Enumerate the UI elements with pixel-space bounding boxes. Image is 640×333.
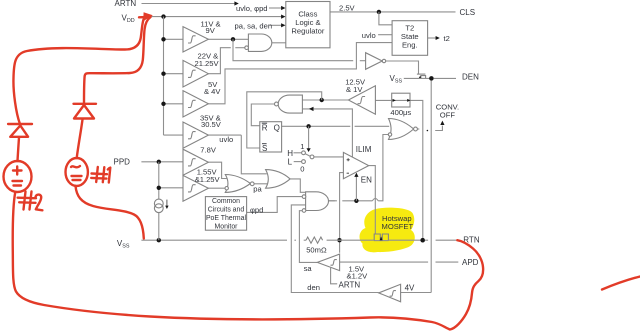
- svg-text:400μs: 400μs: [390, 108, 411, 117]
- switch L contact: [302, 160, 306, 164]
- wire big OR output to AND top input: [290, 179, 306, 192]
- wire rail stub to resistor: [304, 239, 306, 241]
- svg-text:ARTN: ARTN: [115, 0, 137, 8]
- node 2.5V junction: [377, 10, 381, 14]
- svg-text:& 4V: & 4V: [204, 87, 221, 96]
- node VSS rail bus junction: [157, 238, 161, 242]
- wire DEN pin line: [434, 77, 456, 79]
- wire switch common to ILIM plus input: [314, 156, 343, 158]
- red arrowhead at VDD: [143, 12, 153, 21]
- wire den loop bottom from DEN vertical to 4V comp: [401, 292, 432, 294]
- wire comp5 output to small NOR input: [208, 162, 227, 178]
- svg-text:sa: sa: [304, 264, 313, 273]
- svg-text:MOSFET: MOSFET: [382, 222, 414, 231]
- gate NAND C left-pointing (latch reset): [278, 95, 302, 113]
- node tiny stub dot: [427, 130, 429, 132]
- node bus junction comp1: [161, 37, 165, 41]
- wire 400us box to drain sense vertical: [410, 100, 423, 238]
- wire NAND A output to Class box: [272, 42, 286, 44]
- comparator 11V & 9V: [183, 27, 208, 52]
- svg-text:OFF: OFF: [440, 111, 456, 120]
- svg-text:R: R: [262, 123, 268, 132]
- red wire source1 to diode1: [77, 120, 83, 159]
- red diode D1: [74, 104, 97, 119]
- svg-text:30.5V: 30.5V: [201, 120, 222, 129]
- red bar under arrow: [139, 16, 148, 19]
- switch H contact: [302, 151, 306, 155]
- wire lower bus PPD: [141, 161, 183, 163]
- svg-text:&1.2V: &1.2V: [347, 272, 369, 281]
- node EN junction: [354, 199, 358, 203]
- node Q junction: [306, 124, 310, 128]
- svg-text:Circuits and: Circuits and: [208, 207, 245, 214]
- svg-text:Monitor: Monitor: [215, 224, 239, 231]
- wire 12.5V comp output to latch area: [302, 99, 348, 101]
- arrowhead VDD into Class: [281, 15, 285, 19]
- wire pa sa den arrow into Class box: [270, 24, 282, 26]
- red diode D2: [8, 124, 32, 137]
- box U2 T2 State Eng: [392, 21, 428, 56]
- red label #2: [18, 192, 43, 211]
- svg-text:1: 1: [300, 142, 304, 151]
- svg-text:ILIM: ILIM: [356, 145, 372, 154]
- wire NOR output stub: [417, 128, 419, 130]
- node drain RTN junction: [420, 238, 425, 243]
- arrowhead into NAND C lower input: [309, 107, 314, 111]
- wire bus to comparator 6: [159, 187, 183, 189]
- wire NAND C output bubble to R input: [251, 104, 274, 126]
- comparator den 4V left-pointing: [379, 284, 401, 302]
- bubble pa NOR output: [250, 182, 254, 186]
- red loop source2 to bottom to RTN: [13, 192, 483, 330]
- red source #1 circle: [66, 158, 88, 186]
- wire uvlo phi-pd arrow into Class box: [269, 7, 281, 9]
- wire L stub: [294, 161, 302, 163]
- gate NOR dump-timer: [389, 119, 414, 140]
- wire EN arrow line: [355, 176, 357, 201]
- wire comp1 output to NAND A input: [208, 38, 248, 40]
- svg-text:PoE Thermal: PoE Thermal: [206, 215, 247, 222]
- svg-text:PPD: PPD: [114, 158, 131, 167]
- svg-text:EN: EN: [361, 176, 372, 185]
- wire DEN vertical down right side: [430, 81, 432, 293]
- svg-text:pa: pa: [253, 185, 262, 194]
- wire EN line to NOR lower input: [378, 135, 388, 201]
- red wire diode1 up to VDD arrow: [84, 17, 151, 103]
- comparator sa 1.5V & 1.2V left-pointing: [317, 254, 339, 271]
- wire bus to comparator 1: [164, 38, 184, 40]
- wire sa comp output to AND sa bubble: [299, 211, 317, 263]
- arrowhead EN into ILIM: [354, 173, 358, 177]
- red wire diode2 up to VDD arrow: [13, 16, 148, 124]
- gate NAND A (uvlo gating): [248, 34, 271, 51]
- svg-text:APD: APD: [462, 258, 479, 267]
- node DEN junction: [429, 76, 434, 81]
- wire resistor to sense junction: [327, 239, 374, 241]
- wire EN line hop bump over gate vertical: [372, 199, 378, 201]
- resistor 50mohm: [306, 237, 323, 243]
- svg-text:uvlo: uvlo: [362, 31, 376, 40]
- wire sa comp ref to ARTN label: [331, 268, 338, 284]
- wire comp6 output to small NOR bubble: [208, 187, 224, 189]
- svg-text:7.8V: 7.8V: [200, 146, 217, 155]
- arrowhead pa sa den into Class: [281, 23, 285, 27]
- wire bus to comparator 3: [164, 103, 184, 105]
- wire NAND C lower input from ILIM top tap: [302, 109, 352, 158]
- inverter U4: [366, 53, 383, 70]
- red wire source1 down to VSS rail: [76, 186, 144, 239]
- wire inside 400us box: [392, 99, 410, 101]
- wire hotswap mosfet channel baseline: [374, 240, 389, 242]
- arrowhead ARTN top: [234, 1, 238, 5]
- transistor DEN mosfet: [417, 73, 426, 75]
- wire uvlo down to big OR input: [241, 135, 266, 174]
- bubble NOR output: [414, 127, 418, 131]
- wire ARTN top arrow line: [142, 3, 236, 5]
- svg-text:0: 0: [300, 164, 304, 173]
- svg-text:S: S: [262, 144, 267, 153]
- wire VSS stub to DEN mosfet source: [404, 77, 429, 79]
- bubble NAND C output: [275, 102, 279, 106]
- svg-text:4V: 4V: [405, 283, 415, 292]
- red source #2 circle: [4, 161, 32, 192]
- arrowhead uvlo phi-pd into Class: [281, 6, 285, 10]
- node sense resistor junction: [337, 238, 341, 242]
- ILIM plus sign: [347, 158, 350, 161]
- wire AND output stub: [329, 200, 335, 202]
- wire Q output to NOR input: [282, 125, 351, 127]
- wire H stub: [294, 152, 302, 154]
- box 400us timer: [392, 93, 410, 107]
- box U3 Common Circuits and PoE Thermal Monitor: [205, 197, 246, 231]
- wire comp4 uvlo output: [208, 134, 241, 136]
- wire ILIM minus input to sense node: [340, 173, 344, 253]
- bubble NOR lower input: [388, 133, 391, 136]
- svg-text:φpd: φpd: [250, 205, 263, 214]
- svg-text:2.5V: 2.5V: [339, 4, 356, 13]
- svg-text:Eng.: Eng.: [402, 40, 418, 49]
- svg-text:& 1V: & 1V: [346, 85, 363, 94]
- comparator ILIM: [343, 152, 368, 178]
- svg-text:CLS: CLS: [460, 8, 476, 17]
- svg-text:Q: Q: [274, 123, 280, 132]
- wire bus end into comparator 4: [164, 134, 184, 136]
- node bus junction comp2: [161, 72, 165, 76]
- wire 2.5V line from Class box to CLS: [330, 11, 456, 13]
- arrowhead Q select down: [307, 148, 311, 152]
- wire rail dash between hops: [294, 239, 296, 241]
- comparator 1.55V & 1.25V: [183, 175, 208, 201]
- comparator 35V & 30.5V: [183, 122, 208, 148]
- node VDD bus junction: [161, 14, 165, 18]
- node 12.5V comp output junction: [320, 98, 324, 102]
- arrow tick at 400us box right: [407, 99, 410, 102]
- arrowhead CONV OFF up: [440, 121, 444, 125]
- comparator 5V & 4V: [183, 91, 208, 117]
- svg-text:DEN: DEN: [462, 72, 479, 81]
- red stray segment bottom right: [602, 277, 640, 290]
- svg-text:t2: t2: [444, 34, 450, 43]
- wire RTN line pieces with hop: [425, 239, 428, 241]
- wire junction down to inverter feed: [233, 39, 353, 60]
- wire lower bus vertical upper: [158, 162, 160, 199]
- red wire source2 to diode2: [18, 138, 20, 162]
- wire t2 output arrow line: [428, 37, 437, 39]
- bubble AND phi-pd input: [302, 195, 306, 199]
- wire comp2 output up to NAND B bubble: [208, 48, 230, 74]
- svg-text:pa, sa, den: pa, sa, den: [235, 21, 273, 30]
- svg-text:Common: Common: [212, 198, 240, 205]
- wire bus to comparator 2: [164, 73, 184, 75]
- svg-text:50mΩ: 50mΩ: [306, 245, 327, 254]
- transistor Q1 hotswap mosfet: [374, 234, 380, 241]
- svg-text:Regulator: Regulator: [291, 26, 324, 35]
- wire inverter feed stub after hop: [360, 60, 366, 62]
- bubble AND sa input: [302, 209, 306, 213]
- gate small NOR (pa): [225, 175, 250, 193]
- comparator 7.8V: [183, 149, 208, 175]
- highlighter blob over Hotswap MOSFET: [360, 208, 415, 253]
- wire Q arrow down to switch: [308, 126, 310, 148]
- wire 2.5V branch into T2 box: [379, 12, 392, 25]
- wire inverter output to DEN mosfet gate: [386, 61, 419, 74]
- ILIM minus sign: [347, 172, 349, 174]
- wire drain to RTN junction: [389, 239, 421, 241]
- switch common pole: [310, 155, 314, 159]
- wire lower bus vertical below current source: [158, 213, 160, 241]
- node bus junction comp3: [161, 102, 165, 106]
- wire 4V comp output den line: [291, 205, 378, 293]
- red label #1: [91, 167, 110, 183]
- wire uvlo label stub into T2: [378, 34, 392, 36]
- svg-text:ARTN: ARTN: [339, 281, 361, 290]
- wire Q output after hop: [355, 125, 390, 127]
- wire junction up and over to S input: [247, 92, 322, 148]
- wire NAND B bubble stub after hop: [235, 47, 244, 49]
- wire VDD rail: [150, 16, 282, 18]
- wire switch blade: [305, 154, 310, 156]
- comparator 12.5V & 1V left-pointing: [348, 86, 375, 114]
- bubble pa NOR lower input: [225, 187, 228, 190]
- wire phi pd from Common box to AND bubble: [247, 197, 303, 213]
- node bus junction comp6: [157, 186, 161, 190]
- bubble inverter output: [382, 59, 385, 62]
- gate AND hotswap driver: [306, 192, 329, 211]
- wire 12.5V comp input through 400us box: [375, 99, 391, 101]
- wire APD line from sa comp with hop: [340, 261, 429, 263]
- arrowhead t2: [436, 36, 440, 40]
- current source I1: [154, 199, 163, 208]
- wire CONV OFF pointer: [435, 126, 442, 131]
- svg-text:H: H: [287, 149, 293, 158]
- svg-text:L: L: [288, 158, 293, 167]
- arrow current source direction: [166, 200, 168, 207]
- wire upper supply bus: [163, 17, 165, 136]
- comparator 22V & 21.25V: [183, 60, 208, 87]
- arrow tick into 400us box left: [393, 99, 396, 102]
- wire EN line segment 2: [342, 200, 372, 202]
- wire VSS rail left portion: [141, 239, 287, 241]
- wire pa NOR output to big OR input: [254, 183, 268, 185]
- node PPD bus junction: [157, 160, 161, 164]
- node uvlo9V junction: [231, 37, 235, 41]
- svg-text:&1.25V: &1.25V: [195, 175, 221, 184]
- wire ILIM output to hotswap gate: [369, 166, 376, 234]
- box U1 Class Logic & Regulator: [286, 2, 330, 48]
- bubble NAND A input: [245, 46, 249, 50]
- svg-text:den: den: [307, 283, 320, 292]
- gate big OR: [266, 170, 291, 189]
- svg-text:21.25V: 21.25V: [195, 59, 220, 68]
- svg-text:9V: 9V: [206, 26, 216, 35]
- box RS latch: [260, 122, 282, 152]
- svg-text:uvlo, φpd: uvlo, φpd: [236, 4, 268, 13]
- wire comp3 output to T2 input: [208, 43, 392, 104]
- wire AND output / EN line segment 1: [329, 200, 337, 202]
- svg-text:uvlo: uvlo: [219, 135, 233, 144]
